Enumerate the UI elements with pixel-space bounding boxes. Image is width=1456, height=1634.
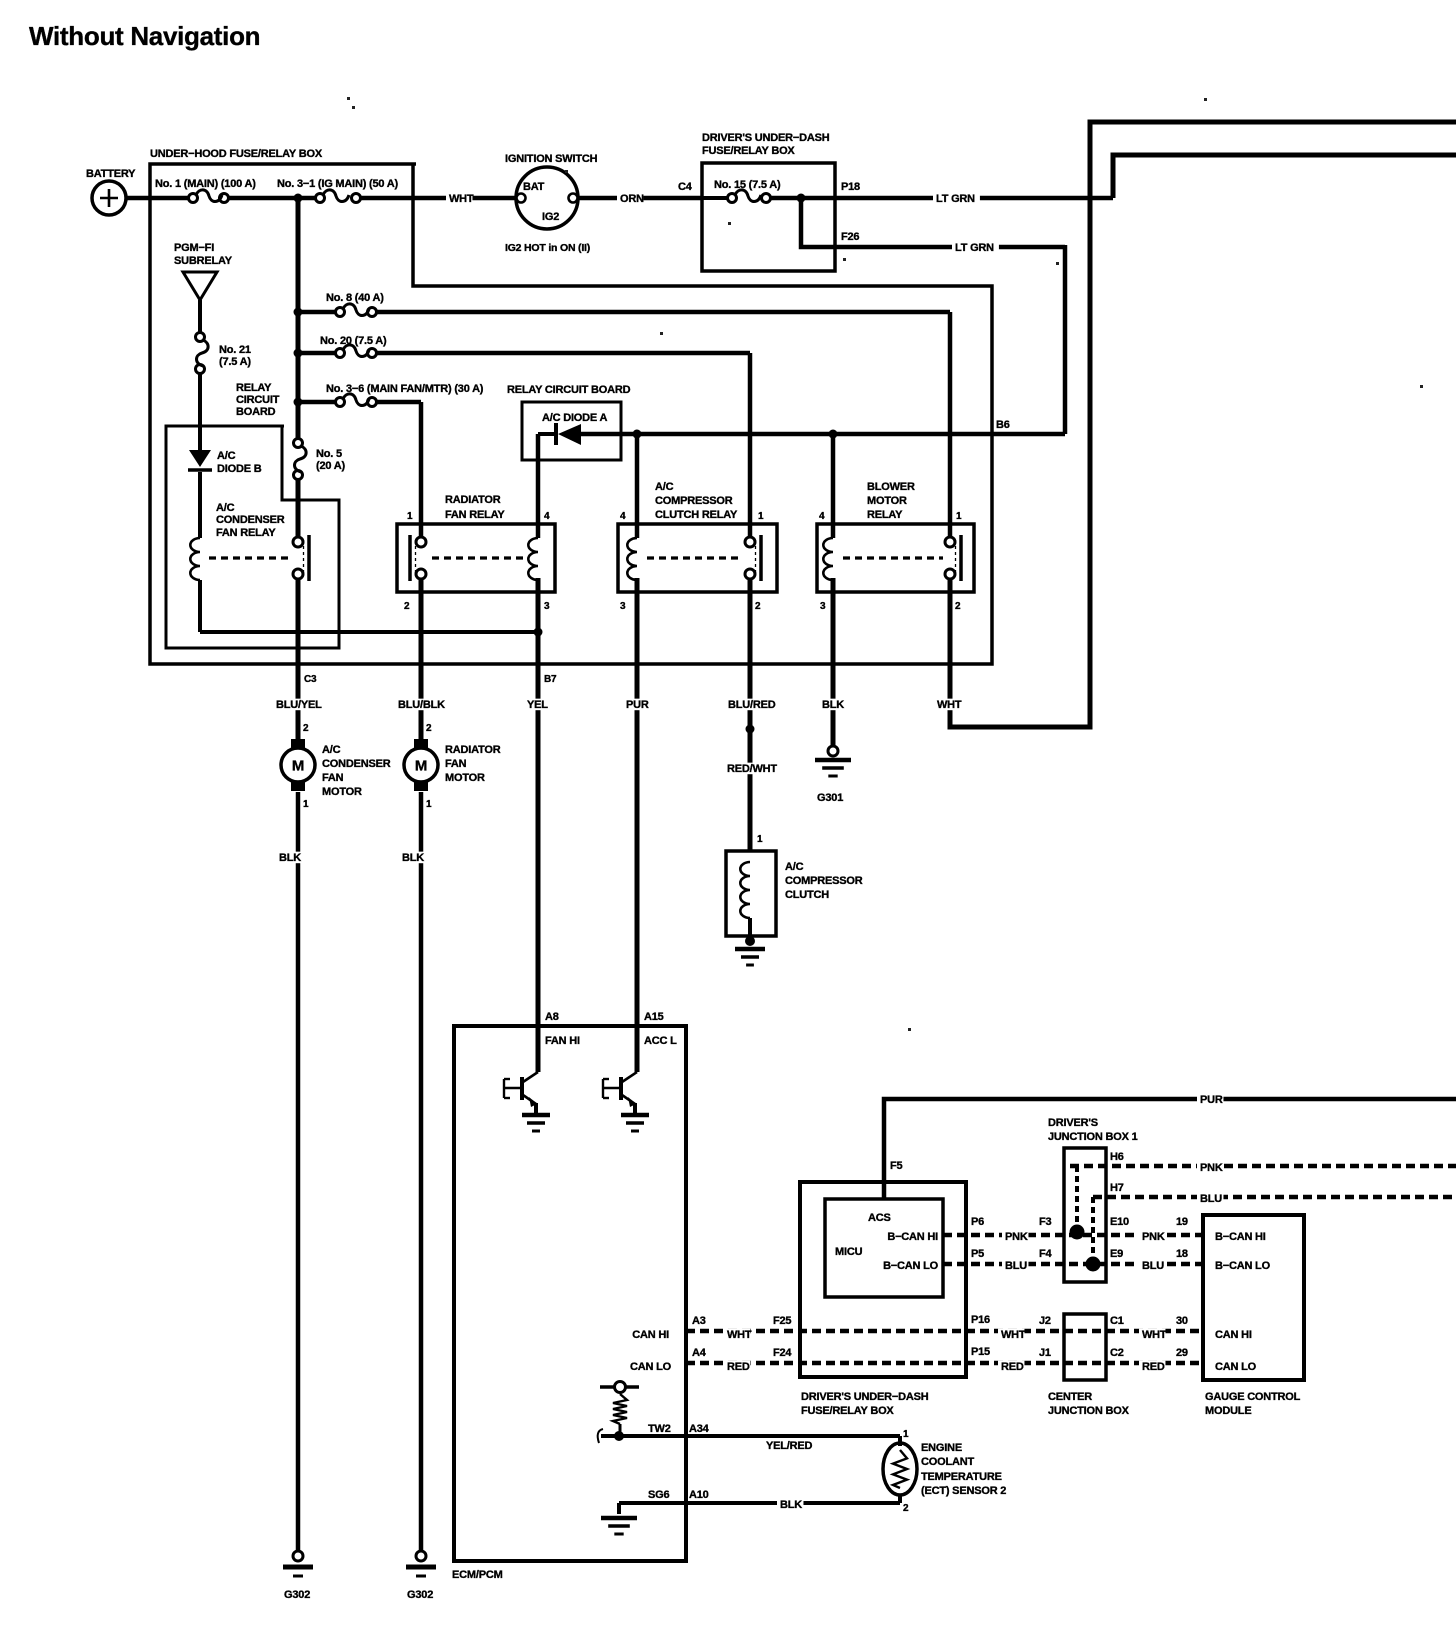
svg-text:CLUTCH: CLUTCH xyxy=(785,889,829,901)
svg-text:A4: A4 xyxy=(692,1347,707,1359)
svg-text:C3: C3 xyxy=(304,674,317,685)
svg-text:B−CAN HI: B−CAN HI xyxy=(1215,1231,1266,1243)
svg-text:A3: A3 xyxy=(692,1315,706,1327)
svg-text:RELAY: RELAY xyxy=(867,509,903,521)
svg-text:FAN RELAY: FAN RELAY xyxy=(445,509,505,521)
svg-text:19: 19 xyxy=(1176,1216,1188,1228)
svg-text:YEL: YEL xyxy=(527,699,548,711)
svg-text:WHT: WHT xyxy=(1001,1329,1026,1341)
svg-text:CLUTCH RELAY: CLUTCH RELAY xyxy=(655,509,738,521)
svg-text:G302: G302 xyxy=(407,1589,433,1601)
svg-text:2: 2 xyxy=(303,723,309,734)
svg-text:F26: F26 xyxy=(841,231,859,243)
svg-text:ECM/PCM: ECM/PCM xyxy=(452,1569,503,1581)
svg-text:DRIVER'S: DRIVER'S xyxy=(1048,1117,1098,1129)
svg-text:BLU: BLU xyxy=(1005,1260,1027,1272)
svg-text:B−CAN LO: B−CAN LO xyxy=(883,1260,939,1272)
svg-text:A34: A34 xyxy=(689,1423,710,1435)
svg-text:BLU/RED: BLU/RED xyxy=(728,699,776,711)
svg-text:E10: E10 xyxy=(1110,1216,1129,1228)
svg-text:B−CAN LO: B−CAN LO xyxy=(1215,1260,1271,1272)
svg-text:3: 3 xyxy=(820,601,826,612)
svg-text:PUR: PUR xyxy=(1200,1094,1223,1106)
svg-text:G301: G301 xyxy=(817,792,843,804)
svg-text:UNDER−HOOD FUSE/RELAY BOX: UNDER−HOOD FUSE/RELAY BOX xyxy=(150,148,323,160)
svg-text:4: 4 xyxy=(544,511,550,522)
svg-text:4: 4 xyxy=(819,511,825,522)
svg-text:A/C DIODE A: A/C DIODE A xyxy=(542,412,607,424)
svg-text:LT GRN: LT GRN xyxy=(936,193,975,205)
svg-text:MODULE: MODULE xyxy=(1205,1405,1251,1417)
svg-text:PGM−FI: PGM−FI xyxy=(174,242,214,254)
svg-text:J2: J2 xyxy=(1039,1315,1051,1327)
svg-text:No. 3−1 (IG MAIN) (50 A): No. 3−1 (IG MAIN) (50 A) xyxy=(277,178,399,190)
svg-text:A/C: A/C xyxy=(785,861,804,873)
svg-text:ACC L: ACC L xyxy=(644,1035,677,1047)
svg-text:No. 3−6 (MAIN FAN/MTR) (30 A): No. 3−6 (MAIN FAN/MTR) (30 A) xyxy=(326,383,484,395)
svg-text:1: 1 xyxy=(407,511,413,522)
svg-text:BOARD: BOARD xyxy=(236,406,276,418)
svg-text:SUBRELAY: SUBRELAY xyxy=(174,255,233,267)
svg-text:A15: A15 xyxy=(644,1011,664,1023)
svg-text:1: 1 xyxy=(757,834,763,845)
svg-text:CAN LO: CAN LO xyxy=(630,1361,672,1373)
svg-text:BLU: BLU xyxy=(1200,1193,1222,1205)
svg-text:2: 2 xyxy=(903,1503,909,1514)
svg-text:No. 5: No. 5 xyxy=(316,448,342,460)
svg-text:CIRCUIT: CIRCUIT xyxy=(236,394,280,406)
svg-text:1: 1 xyxy=(758,511,764,522)
svg-text:A/C: A/C xyxy=(655,481,674,493)
svg-text:DRIVER'S UNDER−DASH: DRIVER'S UNDER−DASH xyxy=(702,132,830,144)
svg-text:ENGINE: ENGINE xyxy=(921,1442,962,1454)
svg-text:CONDENSER: CONDENSER xyxy=(322,758,391,770)
svg-text:BLU/YEL: BLU/YEL xyxy=(276,699,322,711)
svg-text:M: M xyxy=(415,758,427,775)
svg-text:BLK: BLK xyxy=(780,1499,802,1511)
svg-text:(ECT) SENSOR 2: (ECT) SENSOR 2 xyxy=(921,1485,1006,1497)
svg-text:RED: RED xyxy=(1001,1361,1024,1373)
svg-text:P5: P5 xyxy=(971,1248,984,1260)
svg-text:29: 29 xyxy=(1176,1347,1188,1359)
svg-text:RED: RED xyxy=(727,1361,750,1373)
svg-text:F5: F5 xyxy=(890,1160,903,1172)
svg-text:COMPRESSOR: COMPRESSOR xyxy=(655,495,733,507)
svg-text:E9: E9 xyxy=(1110,1248,1123,1260)
svg-text:A/C: A/C xyxy=(216,502,235,514)
svg-text:1: 1 xyxy=(956,511,962,522)
svg-text:CAN HI: CAN HI xyxy=(1215,1329,1252,1341)
svg-text:2: 2 xyxy=(755,601,761,612)
svg-text:SG6: SG6 xyxy=(648,1489,669,1501)
svg-text:CONDENSER: CONDENSER xyxy=(216,514,285,526)
svg-text:BLK: BLK xyxy=(402,852,424,864)
svg-text:FUSE/RELAY BOX: FUSE/RELAY BOX xyxy=(702,145,795,157)
svg-text:C1: C1 xyxy=(1110,1315,1124,1327)
svg-text:MOTOR: MOTOR xyxy=(867,495,907,507)
svg-text:F4: F4 xyxy=(1039,1248,1053,1260)
svg-text:H7: H7 xyxy=(1110,1182,1124,1194)
svg-text:WHT: WHT xyxy=(1142,1329,1167,1341)
svg-text:CAN LO: CAN LO xyxy=(1215,1361,1257,1373)
svg-text:MOTOR: MOTOR xyxy=(322,786,362,798)
svg-text:A/C: A/C xyxy=(217,450,236,462)
svg-text:P18: P18 xyxy=(841,181,860,193)
svg-text:PNK: PNK xyxy=(1142,1231,1165,1243)
svg-text:PNK: PNK xyxy=(1005,1231,1028,1243)
svg-text:18: 18 xyxy=(1176,1248,1188,1260)
svg-text:TW2: TW2 xyxy=(648,1423,671,1435)
svg-text:J1: J1 xyxy=(1039,1347,1051,1359)
svg-text:F25: F25 xyxy=(773,1315,791,1327)
svg-text:G302: G302 xyxy=(284,1589,310,1601)
svg-text:No. 1 (MAIN) (100 A): No. 1 (MAIN) (100 A) xyxy=(155,178,256,190)
svg-text:MICU: MICU xyxy=(835,1246,863,1258)
svg-text:B−CAN HI: B−CAN HI xyxy=(887,1231,938,1243)
svg-text:BLU/BLK: BLU/BLK xyxy=(398,699,445,711)
svg-text:IG2 HOT in ON (II): IG2 HOT in ON (II) xyxy=(505,242,590,254)
svg-text:B6: B6 xyxy=(996,419,1010,431)
svg-text:LT GRN: LT GRN xyxy=(955,242,994,254)
svg-text:P16: P16 xyxy=(971,1314,990,1326)
svg-text:ACS: ACS xyxy=(868,1212,891,1224)
svg-text:TEMPERATURE: TEMPERATURE xyxy=(921,1471,1002,1483)
svg-text:1: 1 xyxy=(426,799,432,810)
svg-text:RADIATOR: RADIATOR xyxy=(445,744,501,756)
svg-text:CENTER: CENTER xyxy=(1048,1391,1092,1403)
svg-text:4: 4 xyxy=(620,511,626,522)
svg-text:PNK: PNK xyxy=(1200,1162,1223,1174)
svg-text:F3: F3 xyxy=(1039,1216,1052,1228)
svg-text:DRIVER'S UNDER−DASH: DRIVER'S UNDER−DASH xyxy=(801,1391,929,1403)
svg-text:A8: A8 xyxy=(545,1011,559,1023)
svg-text:COOLANT: COOLANT xyxy=(921,1456,974,1468)
svg-text:MOTOR: MOTOR xyxy=(445,772,485,784)
svg-text:No. 8 (40 A): No. 8 (40 A) xyxy=(326,292,384,304)
svg-text:A/C: A/C xyxy=(322,744,341,756)
svg-text:COMPRESSOR: COMPRESSOR xyxy=(785,875,863,887)
svg-text:BLU: BLU xyxy=(1142,1260,1164,1272)
svg-text:RED/WHT: RED/WHT xyxy=(727,763,777,775)
svg-text:FAN HI: FAN HI xyxy=(545,1035,580,1047)
svg-text:Without Navigation: Without Navigation xyxy=(29,21,260,51)
svg-text:RELAY CIRCUIT BOARD: RELAY CIRCUIT BOARD xyxy=(507,384,631,396)
svg-text:C4: C4 xyxy=(678,181,693,193)
svg-text:1: 1 xyxy=(903,1429,909,1440)
svg-text:GAUGE CONTROL: GAUGE CONTROL xyxy=(1205,1391,1301,1403)
svg-text:RADIATOR: RADIATOR xyxy=(445,494,501,506)
svg-text:C2: C2 xyxy=(1110,1347,1124,1359)
svg-text:No. 21: No. 21 xyxy=(219,344,251,356)
svg-text:P15: P15 xyxy=(971,1346,990,1358)
svg-text:IGNITION SWITCH: IGNITION SWITCH xyxy=(505,153,598,165)
svg-text:H6: H6 xyxy=(1110,1151,1124,1163)
svg-text:3: 3 xyxy=(544,601,550,612)
svg-text:BAT: BAT xyxy=(523,181,545,193)
svg-text:IG2: IG2 xyxy=(542,211,559,223)
svg-text:No. 20 (7.5 A): No. 20 (7.5 A) xyxy=(320,335,387,347)
svg-text:RED: RED xyxy=(1142,1361,1165,1373)
svg-text:WHT: WHT xyxy=(937,699,962,711)
svg-text:FUSE/RELAY BOX: FUSE/RELAY BOX xyxy=(801,1405,894,1417)
svg-text:30: 30 xyxy=(1176,1315,1188,1327)
svg-text:FAN: FAN xyxy=(445,758,467,770)
svg-text:CAN HI: CAN HI xyxy=(632,1329,669,1341)
svg-text:FAN: FAN xyxy=(322,772,344,784)
svg-text:RELAY: RELAY xyxy=(236,382,272,394)
svg-text:PUR: PUR xyxy=(626,699,649,711)
svg-text:3: 3 xyxy=(620,601,626,612)
svg-text:FAN RELAY: FAN RELAY xyxy=(216,527,276,539)
svg-text:P6: P6 xyxy=(971,1216,984,1228)
svg-text:B7: B7 xyxy=(544,674,557,685)
svg-text:JUNCTION BOX 1: JUNCTION BOX 1 xyxy=(1048,1131,1138,1143)
svg-text:2: 2 xyxy=(426,723,432,734)
svg-text:BLK: BLK xyxy=(822,699,844,711)
svg-text:WHT: WHT xyxy=(727,1329,752,1341)
svg-text:JUNCTION BOX: JUNCTION BOX xyxy=(1048,1405,1130,1417)
svg-text:2: 2 xyxy=(404,601,410,612)
svg-text:1: 1 xyxy=(303,799,309,810)
svg-text:2: 2 xyxy=(955,601,961,612)
svg-text:WHT: WHT xyxy=(449,193,474,205)
svg-text:F24: F24 xyxy=(773,1347,792,1359)
svg-text:BLK: BLK xyxy=(279,852,301,864)
svg-text:No. 15 (7.5 A): No. 15 (7.5 A) xyxy=(714,179,781,191)
svg-text:BATTERY: BATTERY xyxy=(86,168,136,180)
svg-text:YEL/RED: YEL/RED xyxy=(766,1440,813,1452)
svg-text:BLOWER: BLOWER xyxy=(867,481,915,493)
svg-text:DIODE B: DIODE B xyxy=(217,463,262,475)
svg-text:ORN: ORN xyxy=(620,193,644,205)
svg-text:M: M xyxy=(292,758,304,775)
svg-text:A10: A10 xyxy=(689,1489,709,1501)
svg-text:(20 A): (20 A) xyxy=(316,460,345,472)
svg-text:(7.5 A): (7.5 A) xyxy=(219,356,251,368)
